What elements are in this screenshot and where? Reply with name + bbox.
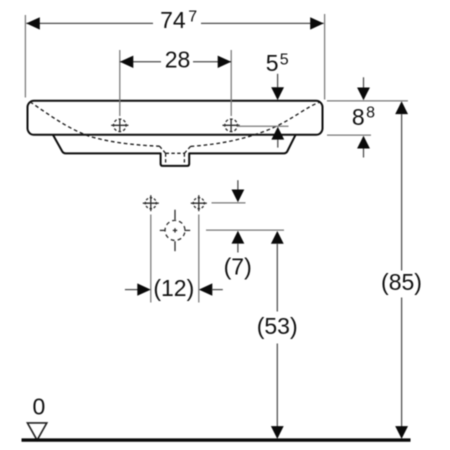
dim 12: left arrow xyxy=(137,283,151,295)
dim 5.5: down arrow xyxy=(271,87,284,100)
dim 53: lower line xyxy=(276,344,278,427)
dim 8.8: lower tail line xyxy=(363,149,365,158)
svg-text:8: 8 xyxy=(366,105,375,122)
rim top leader line xyxy=(327,100,408,102)
svg-text:(7): (7) xyxy=(224,253,252,279)
svg-text:(85): (85) xyxy=(381,269,422,295)
svg-text:0: 0 xyxy=(33,394,46,420)
dim 28: dimension line xyxy=(120,61,231,63)
fixing hole leader line xyxy=(212,202,246,204)
dim 8.8: up arrow xyxy=(357,136,370,149)
dim 8.8: down arrow xyxy=(357,88,370,101)
tap hole left xyxy=(111,118,128,133)
dim 85: upper line xyxy=(401,114,403,270)
dim 5.5: up arrow xyxy=(271,127,284,140)
dim 28: right extension line xyxy=(230,50,232,116)
tap hole right xyxy=(223,118,240,133)
dim 28: left extension line xyxy=(119,50,121,116)
dim 7: up arrow xyxy=(232,231,245,244)
dim 85: up arrow xyxy=(395,101,408,114)
basin body outline with drain boss xyxy=(53,135,296,166)
dim 28: right arrow xyxy=(218,56,232,68)
dim 7: upper tail line xyxy=(237,180,239,189)
siphon leader line xyxy=(206,229,284,231)
dim 7: down arrow xyxy=(232,190,245,203)
dim 5.5: tail line xyxy=(277,74,279,88)
basin bowl dashed profile left xyxy=(30,102,160,146)
dim 85: down arrow xyxy=(395,426,408,439)
ground line xyxy=(22,438,411,441)
siphon / drain hole xyxy=(160,210,190,252)
dim 74: left extension line xyxy=(24,15,26,98)
svg-text:(12): (12) xyxy=(153,275,194,301)
dim 74: dimension line xyxy=(26,22,323,24)
svg-text:(53): (53) xyxy=(257,313,298,339)
datum triangle xyxy=(27,423,46,440)
fixing hole left xyxy=(143,195,159,211)
svg-text:5: 5 xyxy=(266,50,279,76)
dim 5.5: lower tail line xyxy=(277,140,279,148)
tap deck leader line xyxy=(238,125,289,127)
svg-text:74: 74 xyxy=(160,7,186,33)
dim 12: right extension line xyxy=(198,215,200,303)
svg-text:8: 8 xyxy=(352,104,365,130)
dim 53: down arrow xyxy=(271,426,284,439)
dim 74: right arrow xyxy=(310,17,324,29)
dim 53: up arrow xyxy=(271,231,284,244)
dim 12: left extension line xyxy=(150,215,152,303)
dim 74: left arrow xyxy=(26,17,40,29)
dim 53: upper line xyxy=(276,244,278,312)
drain funnel dashed xyxy=(160,146,191,164)
svg-text:5: 5 xyxy=(280,52,289,69)
basin bowl dashed profile right xyxy=(191,102,320,146)
dim 7: lower tail line xyxy=(237,244,239,253)
svg-text:28: 28 xyxy=(165,47,191,73)
fixing hole right xyxy=(191,195,207,211)
washbasin rim outline xyxy=(28,101,323,135)
dim 8.8: upper tail line xyxy=(363,77,365,87)
dim 74: right extension line xyxy=(324,14,326,100)
dim 28: left arrow xyxy=(120,56,134,68)
dim 85: lower line xyxy=(401,298,403,427)
dim 12: left tail line xyxy=(125,289,138,291)
svg-text:7: 7 xyxy=(188,8,197,25)
rim bottom leader line xyxy=(327,134,371,136)
dim 12: right tail line xyxy=(212,289,223,291)
dim 12: right arrow xyxy=(199,283,213,295)
